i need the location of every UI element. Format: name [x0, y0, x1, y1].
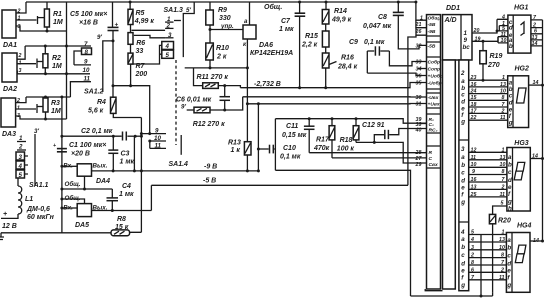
svg-text:1: 1 [502, 75, 505, 81]
ADC DD1 digit-1 outputs [463, 28, 499, 51]
capacitor C6 0,01мк [176, 86, 230, 112]
svg-text:1: 1 [464, 30, 468, 37]
svg-text:0,1 мк: 0,1 мк [280, 154, 301, 161]
svg-text:60 мкГн: 60 мкГн [27, 214, 55, 221]
inductor L1 ДМ-0,6 60мкГн [1, 178, 55, 221]
display HG4 [506, 223, 542, 293]
wire left bus x66.5 [66, 2, 68, 119]
svg-text:c: c [461, 92, 465, 99]
resistor R15 2,2к [301, 24, 329, 49]
svg-text:a: a [461, 236, 465, 243]
regulator DA4 [60, 163, 110, 186]
svg-text:C5 100 мк×: C5 100 мк× [70, 11, 107, 18]
svg-text:10: 10 [500, 162, 506, 168]
svg-text:4: 4 [165, 43, 170, 50]
svg-text:32: 32 [416, 44, 422, 50]
svg-text:2: 2 [470, 253, 474, 259]
svg-text:-Uобр: -Uобр [428, 80, 442, 87]
ADC DD1 digit-2 decoder outputs [459, 70, 469, 222]
svg-text:4: 4 [18, 163, 23, 170]
svg-text:R16: R16 [341, 55, 354, 62]
svg-text:8: 8 [502, 95, 505, 101]
svg-text:2: 2 [18, 53, 22, 59]
svg-text:1 мк: 1 мк [279, 26, 294, 33]
wire DA1 pin1 gate bar [16, 16, 44, 24]
op-amp DA1 [2, 9, 21, 50]
svg-text:2,2 к: 2,2 к [301, 42, 318, 49]
resistor R14 49,9к [322, 1, 351, 25]
switch SA1.3 contacts [132, 7, 192, 64]
svg-text:c: c [461, 252, 465, 259]
wire DA3 pin3 bottom line [16, 116, 67, 121]
svg-text:g: g [460, 119, 465, 126]
svg-text:1M: 1M [51, 108, 61, 115]
svg-text:b: b [509, 43, 513, 50]
svg-text:HG2: HG2 [515, 66, 530, 73]
wire R18 bottom to DD1 pin29 [356, 141, 427, 163]
svg-text:30: 30 [416, 95, 422, 101]
svg-text:-5В: -5В [428, 44, 436, 50]
svg-text:13: 13 [471, 185, 477, 191]
resistor R20 [489, 214, 511, 292]
resistor R13 1к [228, 140, 251, 173]
resistor R18 100к [337, 117, 359, 152]
svg-text:+: + [53, 143, 56, 149]
svg-text:R19: R19 [490, 53, 503, 60]
svg-text:e: e [461, 184, 465, 191]
svg-text:8: 8 [471, 260, 474, 266]
svg-text:DD1: DD1 [446, 5, 460, 12]
switch SA1.2 wiper (node 9') [97, 34, 115, 92]
svg-text:10: 10 [499, 245, 505, 251]
svg-text:HG4: HG4 [517, 223, 532, 230]
svg-text:C9: C9 [349, 39, 358, 46]
svg-text:3': 3' [34, 128, 39, 135]
capacitor C11 0,15мк [282, 117, 315, 153]
svg-text:-Uвх: -Uвх [428, 95, 439, 101]
wire DA2 pin3 bottom line to SA1.2 contact 10 [17, 71, 90, 75]
switch SA1.1 wiper (node 3') [29, 128, 49, 189]
svg-text:g: g [507, 198, 512, 205]
svg-text:КР142ЕН19А: КР142ЕН19А [250, 50, 293, 57]
svg-text:10: 10 [471, 162, 477, 168]
node -9В label [204, 164, 217, 171]
svg-text:e: e [507, 267, 511, 274]
svg-text:8: 8 [501, 253, 504, 259]
svg-text:8: 8 [85, 49, 89, 56]
ADC DD1 main body [443, 15, 473, 291]
svg-text:3: 3 [471, 245, 474, 251]
svg-text:R13: R13 [228, 140, 241, 147]
svg-text:11: 11 [500, 192, 506, 198]
resistor R6 33 [128, 25, 145, 56]
svg-text:9: 9 [472, 169, 475, 175]
svg-text:DA4: DA4 [96, 178, 110, 185]
svg-text:25: 25 [470, 192, 478, 198]
svg-text:b: b [461, 162, 465, 169]
capacitor C4 1мк [107, 183, 135, 212]
svg-text:bc: bc [463, 44, 471, 51]
wires DD1 to HG3 [469, 147, 507, 198]
svg-text:22: 22 [470, 115, 477, 121]
svg-text:d: d [508, 177, 512, 184]
svg-text:g: g [508, 120, 513, 127]
wire line2 -Uвх [243, 96, 427, 98]
capacitor C8 0,047мк [363, 1, 427, 49]
svg-text:DA2: DA2 [3, 86, 17, 93]
svg-text:A/D: A/D [444, 17, 457, 24]
wire node 7 line [25, 45, 91, 48]
svg-text:SA1.1: SA1.1 [29, 182, 49, 189]
svg-text:16: 16 [471, 82, 477, 88]
wires HG1 right pins [531, 15, 543, 47]
svg-text:2 к: 2 к [216, 54, 227, 61]
svg-text:Вых.: Вых. [93, 163, 108, 170]
svg-text:9: 9 [84, 59, 88, 66]
svg-text:+: + [115, 22, 119, 29]
svg-text:2: 2 [500, 267, 504, 273]
svg-text:R20: R20 [498, 218, 511, 225]
svg-text:b: b [508, 161, 512, 168]
svg-text:9: 9 [464, 37, 468, 44]
svg-text:HG3: HG3 [514, 140, 529, 147]
svg-text:5,6 к: 5,6 к [88, 108, 104, 115]
resistor R16 28,4к [322, 47, 357, 88]
wire DD1 pin33 (C9 right) [389, 51, 426, 66]
svg-text:0,1 мк: 0,1 мк [364, 39, 385, 46]
svg-text:7: 7 [84, 41, 88, 48]
wire DD1 pin32 (-5В riser) [408, 35, 416, 185]
switch SA1.1 contacts [16, 135, 28, 179]
wire DD1 pin26 stub [416, 28, 427, 36]
wire C10/C11 loop top (pin39) [275, 119, 426, 124]
svg-text:3: 3 [461, 146, 465, 153]
switch SA1.4 contacts 9,10,11 [140, 128, 166, 150]
wire -9В rail (DA4 output) [91, 169, 258, 172]
op-amp DA3 [1, 98, 20, 138]
svg-text:R6: R6 [136, 40, 145, 47]
resistor R7 200 [128, 44, 147, 87]
wire DA4 Общ [60, 176, 112, 190]
wires DD1 to HG4 [469, 230, 507, 281]
svg-text:4,99 к: 4,99 к [134, 18, 155, 25]
capacitor C1 100мк 20В electrolytic [53, 142, 106, 158]
svg-text:C6 0,01 мк: C6 0,01 мк [176, 97, 212, 104]
svg-text:13: 13 [500, 155, 506, 161]
wire DD1 pin28 (C11) [309, 152, 426, 153]
svg-text:49,9 к: 49,9 к [331, 17, 352, 24]
wire C10 loop bottom (display common) [275, 170, 410, 296]
resistor R4 5,6к [88, 97, 141, 117]
svg-text:C10: C10 [283, 145, 296, 152]
svg-text:C8: C8 [378, 14, 387, 21]
svg-text:2: 2 [501, 185, 505, 191]
svg-text:b: b [461, 244, 465, 251]
svg-text:R14: R14 [334, 8, 347, 15]
svg-text:12 В: 12 В [2, 223, 17, 230]
svg-text:35: 35 [416, 81, 423, 87]
svg-text:-2,732 В: -2,732 В [254, 81, 281, 88]
wire line3 +Uвх [247, 102, 426, 105]
svg-text:1: 1 [502, 230, 505, 236]
capacitor C3 1мк [108, 136, 134, 171]
node -5В label [203, 178, 216, 185]
resistor R2 1M [43, 46, 62, 74]
svg-text:330: 330 [219, 15, 231, 22]
svg-text:C1 100 мк×: C1 100 мк× [69, 142, 106, 149]
svg-text:DA6: DA6 [259, 42, 273, 49]
node +12V terminal [2, 211, 17, 230]
capacitor C9 0,1мк [349, 39, 389, 73]
wire DD1 pin34 stub [418, 68, 427, 70]
capacitor C12 91 [362, 122, 427, 142]
wire line1 -Uобр (-2,732В) [240, 83, 426, 90]
svg-text:d: d [507, 260, 511, 267]
svg-text:R9: R9 [218, 7, 227, 14]
svg-text:a: a [244, 18, 248, 25]
svg-text:C4: C4 [122, 183, 131, 190]
ADC DD1 digit-4 decoder outputs [460, 229, 465, 289]
svg-text:+: + [3, 211, 7, 218]
capacitor C5 100мк 16В electrolytic [70, 2, 119, 97]
wire DD1 pin27 (R17) [332, 157, 427, 159]
svg-text:29: 29 [415, 162, 422, 168]
svg-text:31: 31 [416, 102, 422, 108]
wire DA2 pin1 gate bar [17, 59, 43, 69]
svg-text:R11 270 к: R11 270 к [197, 74, 229, 81]
svg-text:R18: R18 [340, 137, 353, 144]
svg-text:3: 3 [19, 68, 22, 74]
ADC DD1 digit-3 decoder outputs [460, 146, 465, 206]
resistor R11 270к [194, 68, 241, 89]
node Общ. label [264, 3, 282, 11]
wire DD1 pin38 stub [420, 123, 427, 125]
switch gang link dashed [175, 60, 177, 145]
svg-text:15: 15 [471, 95, 478, 101]
svg-text:RC₂: RC₂ [429, 128, 438, 134]
switch SA1.2 contacts 7-11 [70, 41, 103, 97]
wire node R7/R4 line [113, 86, 151, 135]
svg-text:HG1: HG1 [514, 5, 529, 12]
wire DA2 pin2 riser to node 7 line [17, 46, 25, 59]
svg-text:SA1.2: SA1.2 [84, 89, 104, 96]
svg-text:9': 9' [97, 34, 102, 41]
svg-text:470к: 470к [313, 145, 330, 152]
svg-text:13: 13 [499, 237, 505, 243]
svg-text:200: 200 [135, 71, 148, 78]
svg-text:1M: 1M [53, 19, 63, 26]
wire DA3 pin2 riser to contact 11 line [16, 96, 71, 103]
ADC DD1 [446, 5, 460, 12]
svg-text:270: 270 [487, 62, 500, 69]
svg-text:1M: 1M [52, 63, 62, 70]
resistor R17 470к [313, 117, 335, 158]
svg-text:×20 В: ×20 В [71, 151, 90, 158]
wire HG4 common to bottom rail [480, 235, 483, 298]
svg-text:2: 2 [460, 70, 465, 77]
svg-text:R2: R2 [52, 55, 61, 62]
svg-text:SA1.4: SA1.4 [169, 161, 189, 168]
svg-text:b: b [507, 245, 511, 252]
wire bottom display common rail [411, 292, 493, 296]
svg-text:Cвх: Cвх [429, 162, 438, 168]
svg-text:C12 91: C12 91 [362, 122, 385, 129]
wire DD1 bottom to common [425, 289, 442, 291]
capacitor C10 0,1мк [258, 119, 300, 171]
svg-text:R3: R3 [51, 100, 60, 107]
resistor R3 1M [43, 97, 61, 119]
svg-text:×16 В: ×16 В [79, 20, 98, 27]
wire DA3 pin1 gate bar [16, 104, 43, 113]
svg-text:a: a [507, 237, 511, 244]
svg-text:33: 33 [136, 48, 144, 55]
wire R9 to DA6 control [210, 29, 243, 31]
resistor R9 330 [206, 2, 234, 31]
svg-text:0,047 мк: 0,047 мк [363, 23, 392, 30]
svg-text:2: 2 [501, 108, 505, 114]
ADC DD1 pin numbers [415, 16, 424, 169]
svg-text:R10: R10 [216, 45, 229, 52]
resistor R8 15к [111, 216, 130, 236]
svg-text:R4: R4 [97, 99, 106, 106]
svg-text:9': 9' [181, 104, 186, 111]
svg-text:11: 11 [471, 155, 477, 161]
svg-text:Cобр: Cобр [428, 59, 441, 66]
wire vertical x258.4 (C10 branch) [257, 104, 260, 173]
svg-text:18: 18 [471, 102, 477, 108]
switch SA1.4 wiper [169, 135, 189, 168]
wire DA1 pin3 bottom line [16, 26, 67, 33]
resistor R1 1M [44, 2, 62, 31]
svg-text:11: 11 [499, 275, 505, 281]
svg-text:C: C [429, 156, 433, 162]
svg-text:e: e [461, 268, 465, 275]
capacitor C7 1мк [279, 1, 305, 88]
svg-text:28,4 к: 28,4 к [337, 64, 358, 71]
svg-text:-9 В: -9 В [204, 164, 217, 171]
svg-text:5: 5 [19, 172, 23, 179]
wire -5В rail (DA5 output) [151, 185, 408, 210]
wire DD1 pin1 to top bus [414, 1, 426, 21]
ADC DD1 pin-label column [427, 15, 443, 290]
svg-text:-5В: -5В [428, 22, 436, 28]
op-amp DA2 [2, 53, 22, 93]
wires HG1 input jogs [496, 19, 508, 43]
wire DD1 pin21 stub [416, 20, 427, 28]
svg-text:Общ.: Общ. [428, 15, 441, 22]
svg-text:d: d [461, 177, 465, 184]
svg-text:d: d [461, 261, 465, 268]
display HG1 [501, 5, 531, 54]
svg-text:h: h [508, 206, 512, 213]
svg-text:24: 24 [470, 88, 477, 94]
svg-text:R8: R8 [117, 216, 126, 223]
svg-text:0,15 мк: 0,15 мк [282, 132, 307, 139]
svg-text:1: 1 [502, 147, 505, 153]
svg-text:3: 3 [19, 154, 23, 161]
regulator DA5 [60, 195, 151, 229]
svg-text:c: c [461, 169, 465, 176]
svg-text:-9В: -9В [428, 29, 436, 35]
svg-text:Общ.: Общ. [264, 3, 282, 11]
svg-text:R12 270 к: R12 270 к [193, 121, 225, 128]
svg-text:4: 4 [470, 237, 474, 243]
wire common anode bus [541, 20, 544, 243]
svg-text:5: 5 [166, 52, 170, 59]
svg-text:L1: L1 [25, 196, 33, 203]
resistor R10 2к [206, 30, 229, 70]
svg-text:+Uобр: +Uобр [428, 73, 443, 80]
switch SA1.3 wiper (node 5') [183, 2, 194, 57]
svg-text:g: g [506, 282, 511, 289]
svg-text:C7: C7 [281, 18, 291, 25]
svg-text:16: 16 [471, 177, 477, 183]
svg-text:c: c [508, 169, 512, 176]
svg-text:C₂: C₂ [429, 122, 435, 128]
svg-text:C2 0,1 мк: C2 0,1 мк [81, 128, 113, 135]
svg-text:g: g [460, 282, 465, 289]
display HG3 [507, 140, 543, 213]
svg-text:c: c [507, 252, 511, 259]
svg-text:d: d [509, 25, 513, 32]
svg-text:1 к: 1 к [231, 147, 241, 154]
svg-text:40: 40 [415, 128, 422, 134]
svg-text:DA3: DA3 [2, 131, 16, 138]
svg-text:11: 11 [84, 76, 91, 83]
svg-text:DA1: DA1 [3, 42, 17, 49]
svg-text:R15: R15 [305, 33, 318, 40]
svg-text:17: 17 [471, 108, 478, 114]
svg-text:6: 6 [471, 267, 474, 273]
svg-text:R: R [429, 150, 433, 156]
svg-text:R5: R5 [136, 10, 145, 17]
wire mid bus x141.4 [130, 118, 143, 233]
node -2,732В label [254, 81, 281, 88]
svg-text:8: 8 [502, 169, 505, 175]
svg-text:C11: C11 [286, 123, 298, 130]
svg-text:34: 34 [416, 67, 422, 73]
svg-text:e: e [508, 184, 512, 191]
svg-text:C3: C3 [121, 151, 130, 158]
svg-text:DA5: DA5 [75, 222, 89, 229]
display HG2 [508, 66, 543, 128]
svg-text:R1: R1 [53, 11, 62, 18]
svg-text:100 к: 100 к [337, 146, 355, 153]
wire DD1 pin36 (C9 bottom) [367, 73, 426, 75]
svg-text:a: a [508, 154, 512, 161]
svg-text:ДМ-0,6: ДМ-0,6 [26, 206, 50, 213]
ground [0, 233, 4, 240]
svg-text:SA1.3: SA1.3 [164, 7, 184, 14]
svg-text:+Uвх: +Uвх [428, 102, 440, 108]
svg-text:Общ.: Общ. [65, 181, 81, 188]
svg-text:1 мк: 1 мк [119, 191, 134, 198]
svg-text:36: 36 [416, 74, 422, 80]
svg-text:g: g [460, 199, 465, 206]
resistor R19 270 [480, 40, 503, 82]
svg-text:10: 10 [500, 88, 506, 94]
wire HG3 pin5 to R20 [493, 201, 507, 215]
resistor R5 4,99к [128, 1, 154, 26]
svg-text:4: 4 [460, 229, 465, 236]
resistor R12 270к [181, 97, 243, 128]
svg-text:33: 33 [416, 60, 422, 66]
svg-text:a: a [461, 78, 465, 85]
wire DA1 pin2 to top bus [16, 2, 26, 13]
wire bottom rail 12V [1, 232, 111, 234]
svg-text:-5 В: -5 В [203, 178, 216, 185]
wire left lower bus x61.9 [61, 97, 63, 233]
